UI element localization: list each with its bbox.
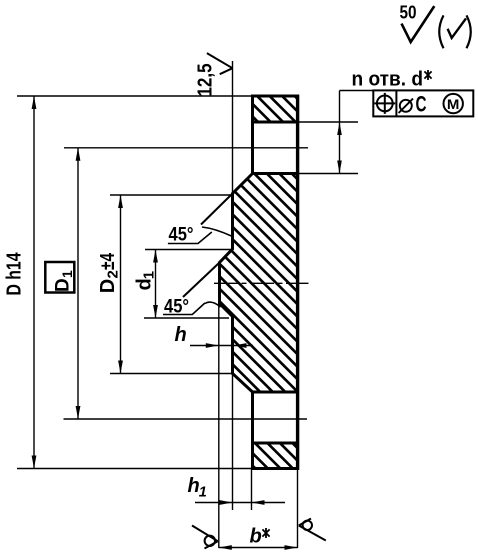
M in circle [444, 94, 463, 113]
extension line b right [297, 469, 299, 549]
svg-text:b: b [250, 526, 262, 548]
dimension D2 +-4 [97, 195, 123, 374]
svg-text:1: 1 [141, 271, 158, 279]
extension line hole bottom right [298, 173, 359, 175]
svg-text:D: D [97, 279, 119, 293]
dimension b [219, 526, 298, 550]
extension line d1 bottom [144, 317, 229, 319]
extension line hole top right [298, 121, 359, 123]
extension line D2 top [110, 194, 231, 196]
dimension d (hole) with arrows [337, 91, 342, 174]
extension line D bottom [17, 468, 253, 470]
svg-text:C: C [416, 92, 427, 117]
svg-text:2: 2 [105, 270, 122, 278]
hatched bottom rim of flange [214, 440, 335, 473]
roughness symbol bottom left [192, 526, 218, 549]
axis of lower bolt hole [64, 418, 308, 420]
extension line D top [17, 95, 253, 97]
extension line for 12,5 roughness [232, 61, 234, 194]
main body (hatched section) [0, 170, 478, 396]
svg-text:12,5: 12,5 [195, 64, 217, 97]
chamfer extension line (lower 45) [183, 263, 220, 298]
leader h [175, 324, 254, 348]
part axis centerline [214, 282, 309, 284]
position symbol [377, 96, 393, 112]
svg-text:D h14: D h14 [3, 252, 25, 296]
bolt hole (upper, section) [253, 122, 298, 174]
svg-text:45°: 45° [169, 225, 194, 246]
bolt hole (lower, section) [253, 392, 298, 443]
dimension D1 (boxed) [45, 148, 80, 419]
svg-text:50: 50 [400, 1, 417, 22]
roughness symbol 12,5 [195, 53, 233, 96]
svg-text:M: M [447, 96, 460, 112]
extension line h1 left [232, 374, 234, 511]
extension line b left [218, 304, 220, 549]
hatched top rim of flange [216, 93, 337, 126]
right face of flange [296, 95, 299, 471]
svg-text:1: 1 [59, 270, 75, 278]
axis of upper bolt hole [64, 147, 308, 149]
roughness symbol bottom right [299, 519, 326, 541]
label 45 deg (upper) [168, 225, 231, 246]
diameter symbol [400, 100, 412, 112]
dimension d1 [134, 250, 158, 319]
general roughness 50 with check [400, 1, 435, 42]
svg-text:±4: ±4 [97, 252, 119, 270]
svg-text:h: h [175, 324, 187, 346]
feature control frame [373, 90, 473, 116]
svg-text:1: 1 [199, 485, 207, 501]
label 45 deg (lower) [163, 297, 221, 318]
svg-text:D: D [53, 278, 74, 292]
label n otv. d* [352, 69, 432, 91]
extension line d1 top [145, 249, 231, 251]
feature control frame leader [340, 90, 374, 92]
chamfer extension line (upper 45) [201, 194, 233, 225]
dimension h1 [188, 475, 286, 505]
extension line h1 right [251, 469, 253, 511]
parenthesized check symbol [439, 15, 471, 48]
dimension D h14 [3, 96, 36, 469]
extension line D2 bottom [110, 373, 232, 375]
svg-text:n отв. d: n отв. d [352, 69, 424, 91]
